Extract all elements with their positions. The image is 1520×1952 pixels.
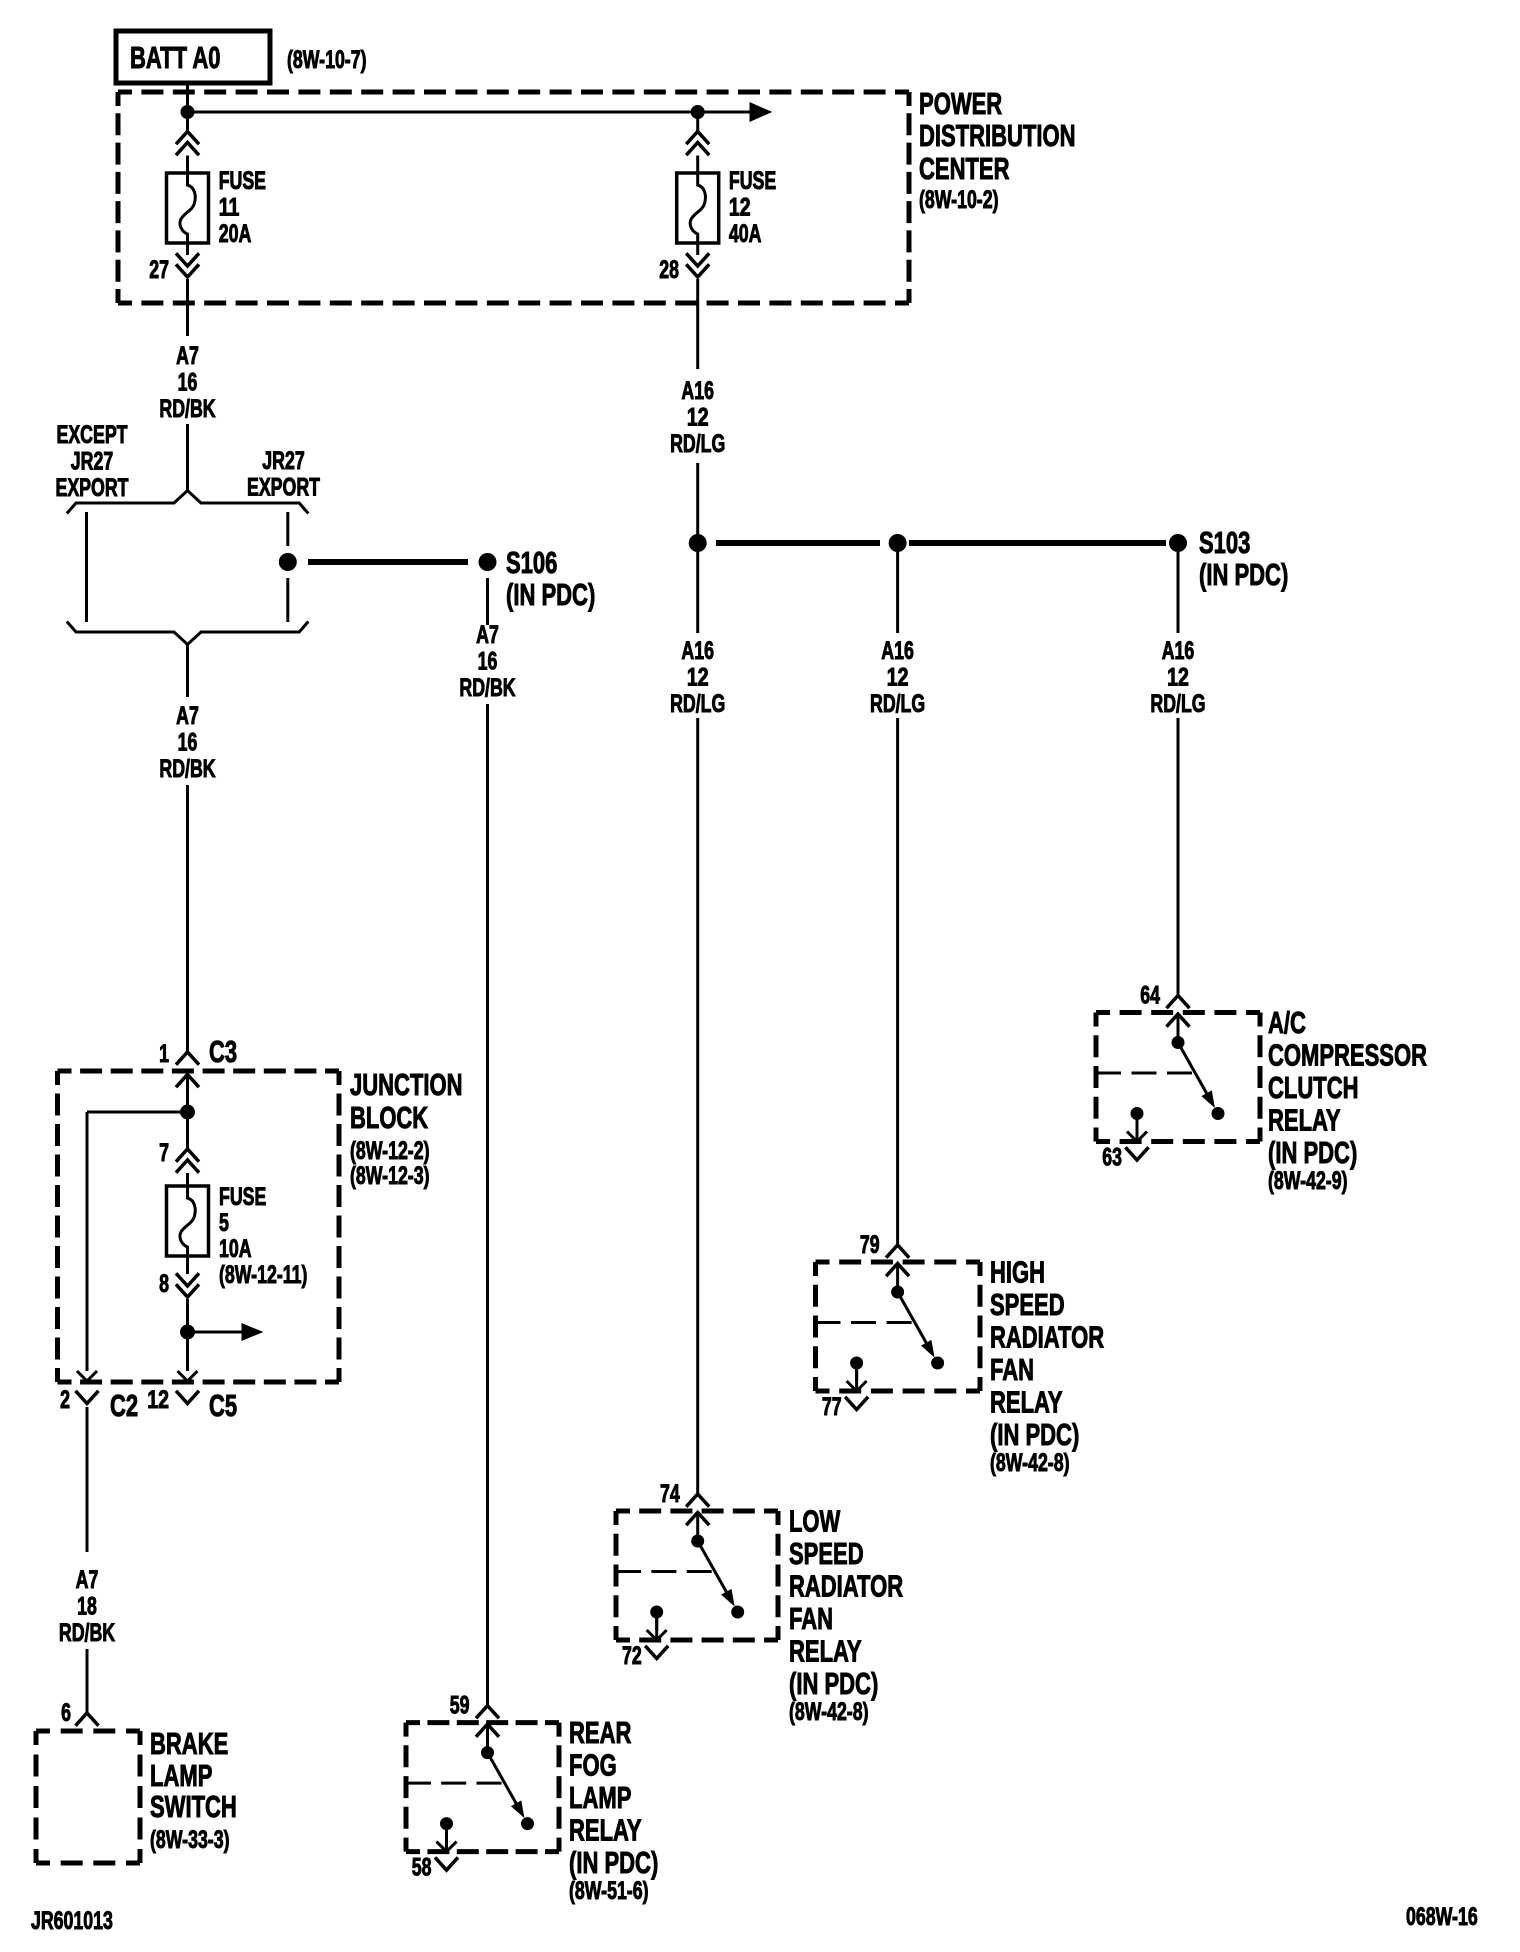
svg-text:RD/LG: RD/LG — [870, 690, 925, 718]
fuse F5 — [167, 1186, 209, 1256]
splice S106 dot — [479, 554, 496, 571]
wire from C2 to brake lamp switch — [86, 1407, 89, 1552]
svg-text:12: 12 — [687, 664, 709, 692]
svg-text:2: 2 — [60, 1386, 70, 1414]
wire to C5 exit — [186, 1332, 189, 1371]
svg-text:(IN PDC): (IN PDC) — [1268, 1135, 1357, 1170]
svg-text:JUNCTION: JUNCTION — [350, 1067, 463, 1102]
relay switch arm — [1178, 1043, 1209, 1098]
fused output arrow to other circuits — [188, 1331, 253, 1334]
wire to low speed radiator fan relay — [696, 718, 699, 1495]
relay output arrow at pin 72 — [647, 1630, 667, 1640]
svg-text:12: 12 — [1167, 664, 1189, 692]
svg-text:CENTER: CENTER — [919, 151, 1010, 186]
wire from BATT A0 into PDC — [186, 83, 189, 108]
svg-text:A16: A16 — [681, 377, 714, 405]
splice S103 dot — [1170, 535, 1187, 552]
relay common contact dot — [1172, 1037, 1184, 1049]
wire below S103 bus (A/C relay feed) — [1177, 552, 1180, 633]
svg-text:EXPORT: EXPORT — [56, 474, 129, 502]
svg-text:A16: A16 — [881, 637, 914, 665]
svg-text:12: 12 — [147, 1386, 169, 1414]
svg-text:A7: A7 — [476, 621, 499, 649]
connector chevron C5 — [176, 1391, 199, 1404]
svg-text:(8W-12-3): (8W-12-3) — [350, 1162, 430, 1190]
wire to fuse 11 — [186, 116, 189, 132]
svg-text:RD/BK: RD/BK — [459, 674, 515, 702]
svg-text:16: 16 — [478, 648, 498, 676]
svg-text:RD/LG: RD/LG — [670, 430, 725, 458]
connector chevron below pin 77 — [845, 1397, 868, 1410]
svg-text:RELAY: RELAY — [1268, 1103, 1341, 1138]
svg-text:59: 59 — [450, 1692, 470, 1720]
svg-text:RELAY: RELAY — [990, 1384, 1063, 1419]
svg-text:SPEED: SPEED — [789, 1536, 864, 1571]
wire to fuse 12 — [696, 116, 699, 132]
svg-text:A16: A16 — [681, 637, 714, 665]
svg-text:FUSE: FUSE — [219, 1183, 266, 1211]
svg-text:RELAY: RELAY — [569, 1813, 642, 1848]
option branch wire right (JR27 EXPORT) — [286, 512, 289, 546]
wire out of PDC pin 28 — [696, 279, 699, 369]
svg-text:77: 77 — [822, 1393, 842, 1421]
svg-text:S106: S106 — [506, 545, 557, 580]
option brace top — [67, 491, 308, 514]
junction block C5 exit arrow — [178, 1371, 198, 1381]
svg-text:16: 16 — [178, 729, 198, 757]
relay common contact dot — [692, 1535, 704, 1547]
svg-text:REAR: REAR — [569, 1715, 631, 1750]
wire to splice S103 bus — [696, 463, 699, 536]
svg-text:A7: A7 — [76, 1566, 99, 1594]
relay N.O. contact dot — [932, 1357, 944, 1369]
relay dashed case — [1096, 1010, 1260, 1015]
node at fuse 12 feed — [691, 106, 704, 119]
wire below S103 bus (low speed relay feed) — [696, 552, 699, 633]
svg-text:S103: S103 — [1199, 525, 1250, 560]
relay internal divider — [616, 1570, 712, 1573]
svg-text:(8W-42-9): (8W-42-9) — [1268, 1167, 1348, 1195]
relay internal divider — [816, 1321, 912, 1324]
svg-text:A7: A7 — [176, 702, 199, 730]
connector chevrons pin 27 — [176, 253, 199, 266]
svg-text:DISTRIBUTION: DISTRIBUTION — [919, 118, 1076, 153]
fused output splice dot — [181, 1325, 195, 1339]
svg-text:11: 11 — [219, 194, 240, 222]
connector chevron pin 64 — [1167, 996, 1190, 1009]
wire below option brace — [186, 645, 189, 698]
svg-text:20A: 20A — [219, 220, 252, 248]
splice node on S103 bus (left) — [689, 535, 706, 552]
svg-text:64: 64 — [1140, 982, 1160, 1010]
svg-text:5: 5 — [219, 1209, 229, 1237]
battery feed box BATT A0 — [116, 31, 270, 83]
wire below fuse 11 — [186, 243, 189, 255]
svg-text:(IN PDC): (IN PDC) — [506, 577, 595, 612]
relay N.O. contact dot — [522, 1818, 534, 1830]
connector chevrons pin 7 — [176, 1149, 199, 1162]
relay output arrow at pin 58 — [437, 1842, 457, 1852]
svg-text:BRAKE: BRAKE — [150, 1726, 228, 1761]
S103 bus segment — [716, 540, 880, 546]
fuse F12 — [677, 173, 719, 243]
relay switch arm — [488, 1753, 519, 1808]
relay switch arm — [698, 1541, 729, 1596]
connector chevron pin 6 — [76, 1713, 99, 1726]
svg-text:RD/BK: RD/BK — [159, 395, 215, 423]
svg-text:7: 7 — [159, 1139, 169, 1167]
svg-text:C3: C3 — [209, 1034, 237, 1069]
wire from splice to fuse 5 — [186, 1119, 189, 1149]
svg-text:HIGH: HIGH — [990, 1254, 1045, 1289]
wire out of PDC pin 27 — [186, 279, 189, 336]
fuse F11 — [167, 173, 209, 243]
wire S106 branch to rear fog lamp relay — [486, 704, 489, 1706]
svg-text:63: 63 — [1102, 1144, 1122, 1172]
option brace bottom — [67, 622, 308, 645]
wire A7 to option brace — [186, 424, 189, 491]
svg-text:(8W-12-11): (8W-12-11) — [219, 1261, 307, 1289]
connector chevron below pin 63 — [1126, 1147, 1149, 1160]
relay internal arrow (pin into coil/contact) — [686, 1513, 709, 1526]
brake lamp switch dashed box — [36, 1729, 140, 1734]
svg-text:8: 8 — [159, 1270, 169, 1298]
svg-text:C2: C2 — [110, 1388, 138, 1423]
svg-text:A/C: A/C — [1268, 1005, 1306, 1040]
svg-text:FAN: FAN — [990, 1352, 1034, 1387]
relay output contact dot (pin 63) — [1131, 1108, 1143, 1120]
svg-text:(IN PDC): (IN PDC) — [789, 1666, 878, 1701]
svg-text:COMPRESSOR: COMPRESSOR — [1268, 1038, 1427, 1073]
relay output contact dot (pin 72) — [651, 1606, 663, 1618]
svg-text:(IN PDC): (IN PDC) — [990, 1417, 1079, 1452]
svg-text:6: 6 — [61, 1699, 71, 1727]
svg-text:JR27: JR27 — [71, 448, 113, 476]
svg-text:BATT A0: BATT A0 — [130, 40, 221, 75]
svg-text:EXPORT: EXPORT — [247, 474, 320, 502]
connector chevron C3 — [176, 1052, 199, 1065]
connector chevron pin 74 — [686, 1494, 709, 1507]
svg-text:(8W-51-6): (8W-51-6) — [569, 1877, 649, 1905]
option branch wire left (EXCEPT JR27 EXPORT) — [85, 512, 88, 622]
svg-text:27: 27 — [149, 256, 169, 284]
connector chevron pin 59 — [476, 1706, 499, 1719]
wire to A/C compressor clutch relay — [1177, 718, 1180, 996]
relay common contact dot — [482, 1747, 494, 1759]
svg-text:FOG: FOG — [569, 1748, 617, 1783]
relay N.O. contact dot — [732, 1606, 744, 1618]
junction block dashed box — [58, 1069, 340, 1074]
wire A7 to junction block — [186, 785, 189, 1052]
svg-text:BLOCK: BLOCK — [350, 1100, 429, 1135]
S103 bus segment — [909, 540, 1166, 546]
connector chevron pin 79 — [886, 1245, 909, 1258]
relay output contact dot (pin 77) — [851, 1357, 863, 1369]
relay internal divider — [406, 1782, 502, 1785]
splice node on JR27 EXPORT branch — [279, 554, 296, 571]
svg-text:RELAY: RELAY — [789, 1633, 862, 1668]
connector chevron below pin 72 — [645, 1646, 668, 1659]
svg-text:(8W-12-2): (8W-12-2) — [350, 1137, 430, 1165]
svg-text:28: 28 — [659, 256, 679, 284]
svg-text:A16: A16 — [1162, 637, 1195, 665]
svg-text:JR601013: JR601013 — [31, 1907, 113, 1935]
svg-text:58: 58 — [412, 1854, 432, 1882]
arrow continuation of PDC bus — [750, 103, 771, 121]
svg-text:(8W-42-8): (8W-42-8) — [789, 1698, 869, 1726]
splice node on S103 bus (middle) — [889, 535, 906, 552]
wire to fused output splice — [186, 1299, 189, 1332]
junction block branch wire to C2 — [87, 1111, 188, 1114]
junction block C2 exit arrow — [77, 1371, 97, 1381]
junction block splice dot — [181, 1105, 195, 1119]
relay internal divider — [1096, 1072, 1192, 1075]
svg-text:(8W-10-7): (8W-10-7) — [287, 46, 367, 74]
svg-text:72: 72 — [622, 1642, 642, 1670]
svg-text:(8W-33-3): (8W-33-3) — [150, 1826, 230, 1854]
connector chevrons above fuse 11 — [176, 132, 199, 145]
relay common contact dot — [892, 1286, 904, 1298]
svg-text:RADIATOR: RADIATOR — [990, 1319, 1104, 1354]
relay output contact dot (pin 58) — [441, 1818, 453, 1830]
svg-text:(IN PDC): (IN PDC) — [1199, 557, 1288, 592]
svg-text:LAMP: LAMP — [569, 1780, 631, 1815]
svg-text:10A: 10A — [219, 1235, 252, 1263]
svg-text:RD/LG: RD/LG — [670, 690, 725, 718]
svg-text:EXCEPT: EXCEPT — [57, 421, 128, 449]
connector chevrons above fuse 12 — [686, 132, 709, 145]
svg-text:(IN PDC): (IN PDC) — [569, 1845, 658, 1880]
svg-text:12: 12 — [887, 664, 909, 692]
connector chevrons pin 8 — [176, 1273, 199, 1286]
node splice at fuse 11 feed — [181, 106, 194, 119]
svg-text:(8W-10-2): (8W-10-2) — [919, 186, 999, 214]
relay dashed case — [616, 1509, 778, 1514]
svg-text:40A: 40A — [729, 220, 762, 248]
svg-text:(8W-42-8): (8W-42-8) — [990, 1449, 1070, 1477]
svg-text:SWITCH: SWITCH — [150, 1789, 237, 1824]
svg-text:A7: A7 — [176, 342, 199, 370]
svg-text:RD/BK: RD/BK — [159, 755, 215, 783]
relay dashed case — [406, 1720, 559, 1725]
svg-text:79: 79 — [860, 1231, 880, 1259]
relay N.O. contact dot — [1212, 1108, 1224, 1120]
connector chevrons pin 28 — [686, 253, 709, 266]
svg-text:JR27: JR27 — [262, 447, 304, 475]
svg-text:LAMP: LAMP — [150, 1758, 212, 1793]
svg-text:CLUTCH: CLUTCH — [1268, 1070, 1359, 1105]
svg-text:16: 16 — [178, 369, 198, 397]
wire to brake lamp switch pin 6 — [86, 1649, 89, 1713]
svg-text:18: 18 — [77, 1593, 97, 1621]
relay switch arm — [898, 1292, 929, 1347]
relay internal arrow (pin into coil/contact) — [476, 1724, 499, 1737]
junction block internal arrow at C3 — [176, 1075, 199, 1088]
svg-text:068W-16: 068W-16 — [1406, 1903, 1478, 1931]
svg-text:POWER: POWER — [919, 86, 1002, 121]
svg-text:74: 74 — [660, 1480, 680, 1508]
svg-text:SPEED: SPEED — [990, 1287, 1065, 1322]
relay internal arrow (pin into coil/contact) — [1167, 1014, 1190, 1027]
relay output arrow at pin 77 — [847, 1381, 867, 1391]
svg-text:RADIATOR: RADIATOR — [789, 1568, 903, 1603]
svg-text:FAN: FAN — [789, 1601, 833, 1636]
svg-text:LOW: LOW — [789, 1503, 841, 1538]
wire to high speed radiator fan relay — [896, 718, 899, 1246]
relay output arrow at pin 63 — [1127, 1132, 1147, 1142]
svg-text:RD/LG: RD/LG — [1150, 690, 1205, 718]
svg-text:12: 12 — [729, 194, 751, 222]
svg-text:FUSE: FUSE — [219, 167, 266, 195]
wire below fuse 5 — [186, 1256, 189, 1274]
wire below fuse 12 — [696, 243, 699, 255]
relay dashed case — [816, 1260, 981, 1265]
connector chevron below pin 58 — [435, 1857, 458, 1870]
connector chevron C2 — [76, 1391, 99, 1404]
svg-text:12: 12 — [687, 404, 709, 432]
svg-text:C5: C5 — [209, 1388, 237, 1423]
relay internal arrow (pin into coil/contact) — [886, 1264, 909, 1277]
svg-text:RD/BK: RD/BK — [59, 1619, 115, 1647]
bus wire across PDC — [188, 111, 751, 114]
svg-text:1: 1 — [159, 1040, 169, 1068]
splice bus to S106 — [308, 559, 468, 565]
wire below S106 — [486, 578, 489, 625]
power distribution center dashed box — [118, 90, 909, 95]
wire below S103 bus (high speed relay feed) — [896, 552, 899, 633]
svg-text:FUSE: FUSE — [729, 167, 776, 195]
